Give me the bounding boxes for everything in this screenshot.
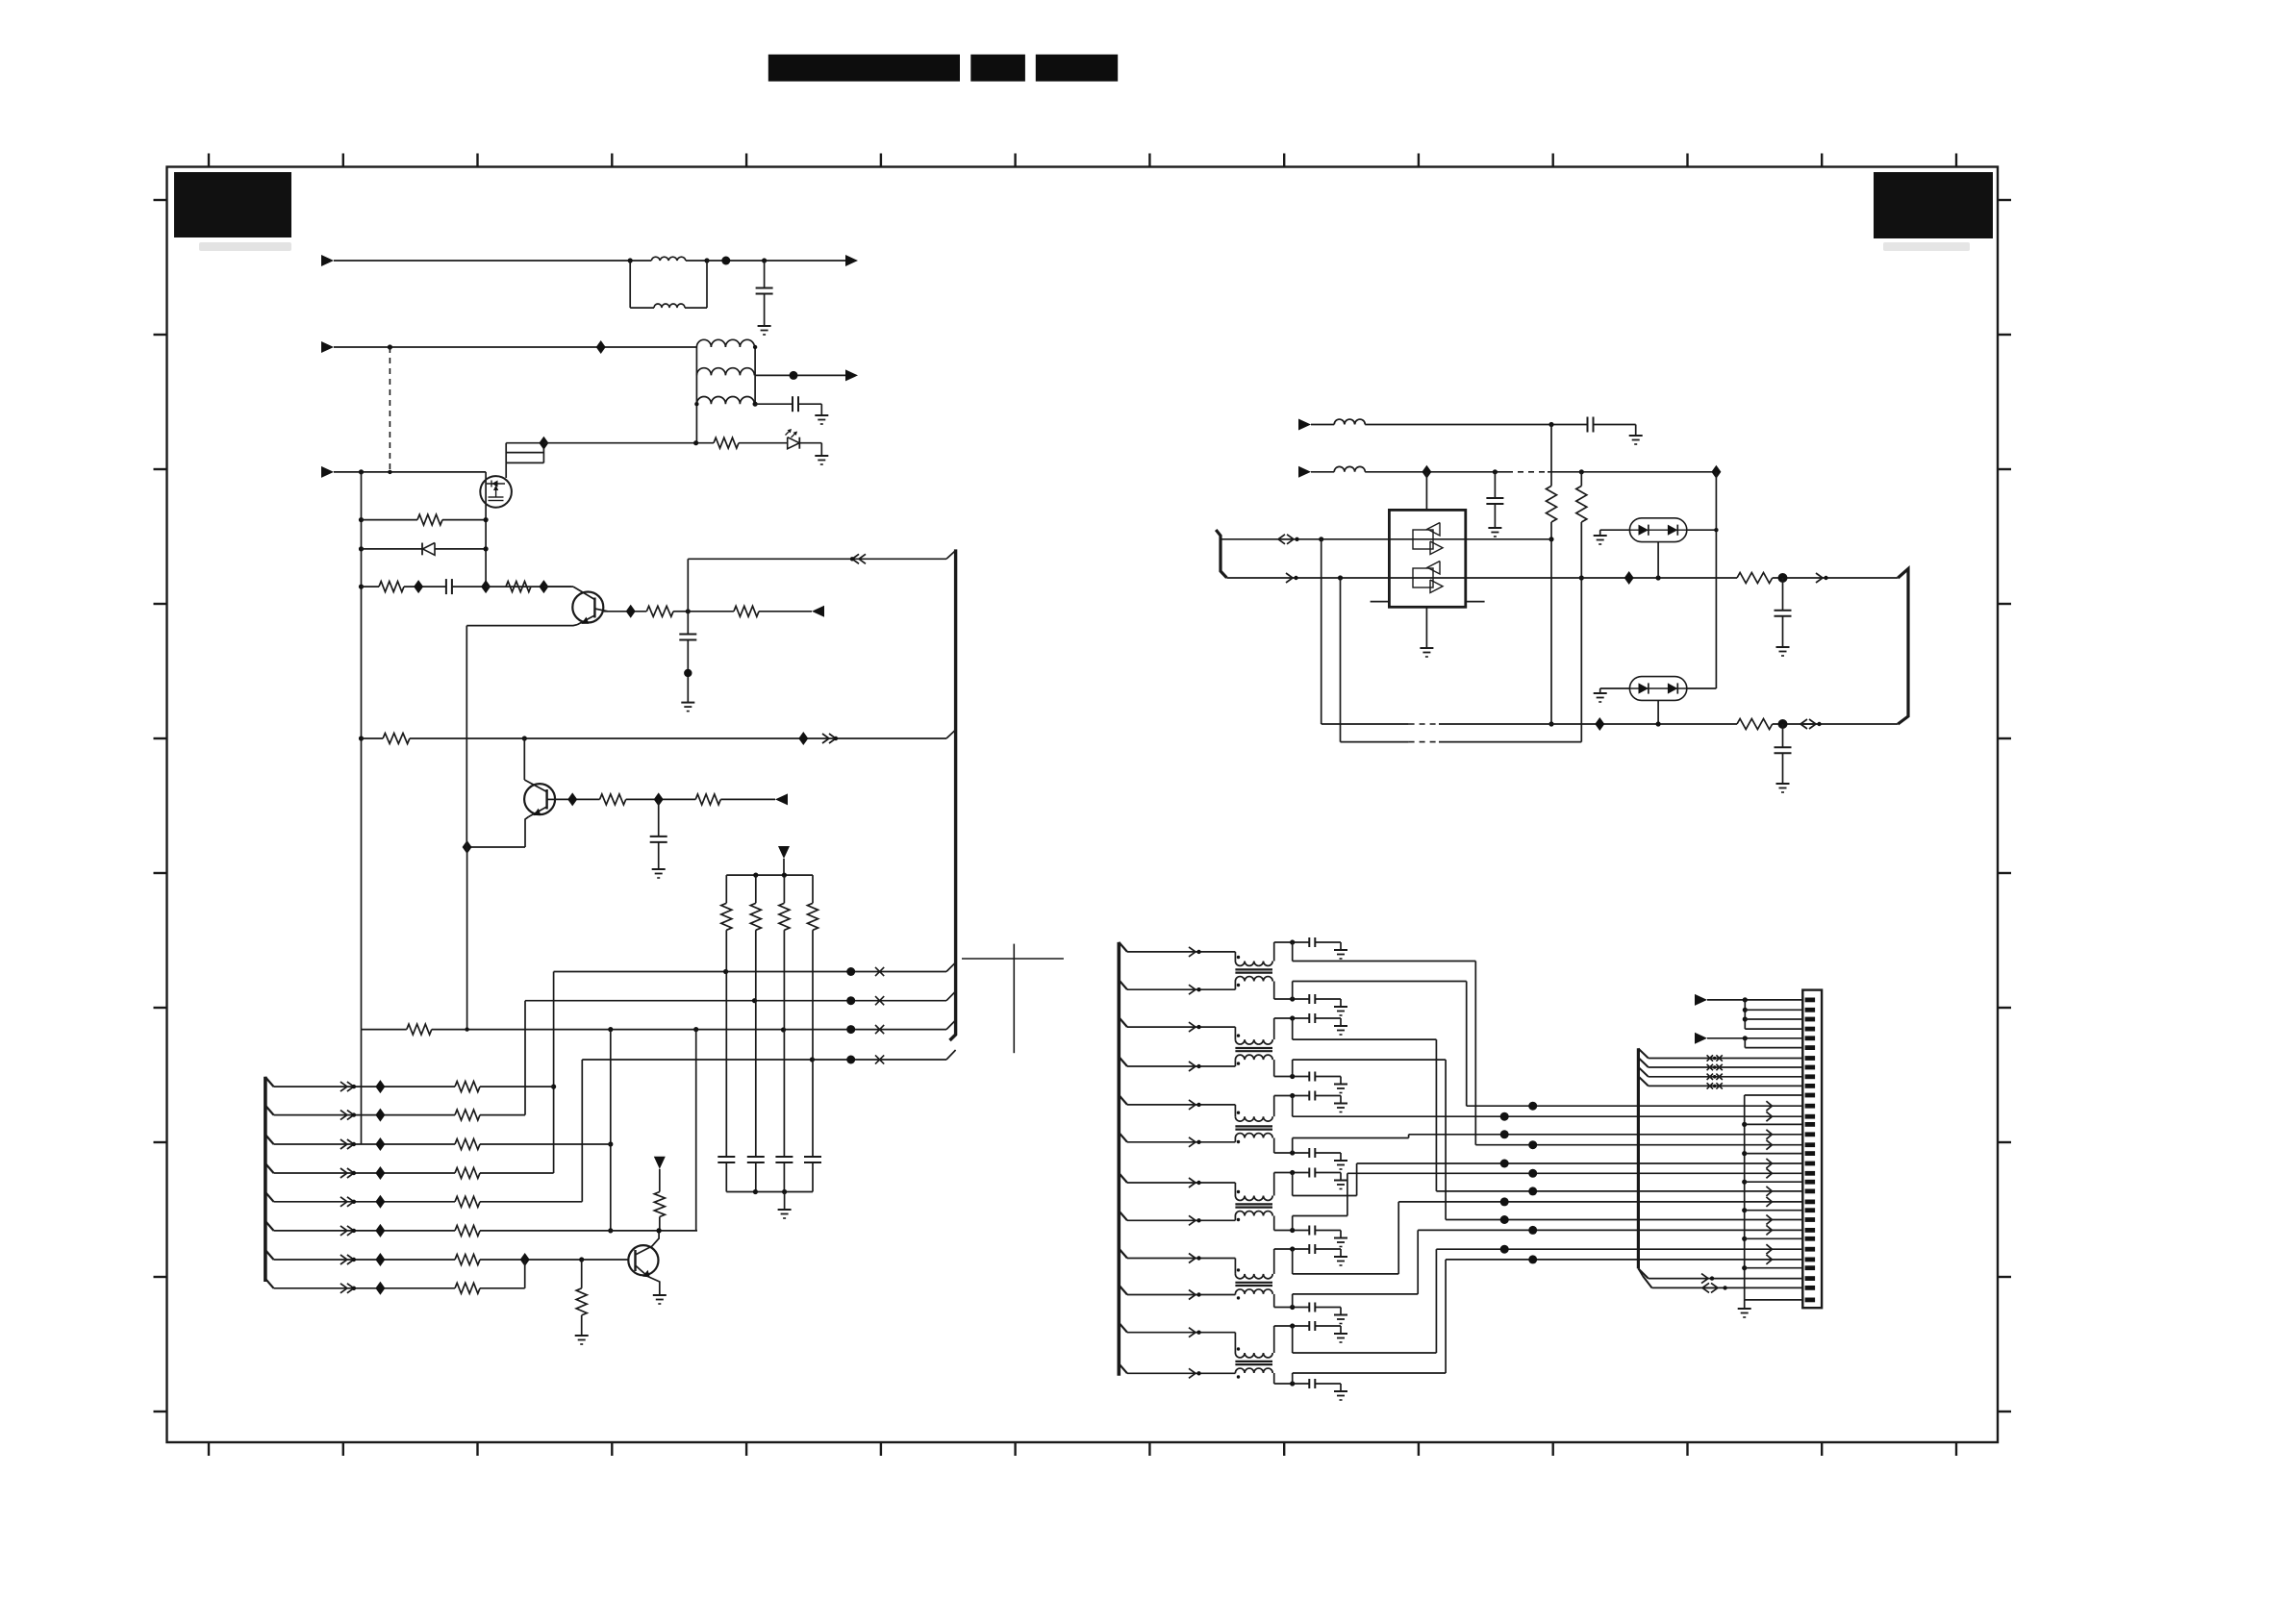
lower row5 diamond [375,1195,385,1209]
U2 right lead [1687,529,1717,531]
pullup resistor R11 [750,903,761,930]
node row1 cap tap [762,258,767,262]
dist row y1318 [1745,1267,1803,1269]
ghost text under left box [199,242,291,251]
filter cap C27 [1308,1226,1310,1236]
row 12 big dot [1528,1102,1537,1111]
ghost text under right box [1883,242,1970,251]
transformer T5 core [1235,1282,1272,1284]
route w1 vertical [1474,962,1476,1145]
cap C11 lead [755,1162,757,1192]
upper row4 wire [582,1059,946,1061]
wire row1 [334,260,630,262]
pin1 node [1743,997,1748,1002]
bus stack left vertical [505,443,507,463]
bottom row1 big dot [1778,719,1788,729]
rowA cap to gnd [1594,424,1636,426]
cell node 1 [1290,939,1295,944]
signal row 4 jog [1234,1060,1236,1066]
xx row 1 stub [1638,1049,1648,1059]
led D2 [788,437,799,449]
vertical x1784 [1715,472,1717,688]
rowII wire [1226,577,1389,579]
lower row4 wire [274,1172,456,1174]
bottom row1 out wire [1773,723,1899,725]
node row3 dashed [388,470,391,474]
transistor Q3 body [628,1245,658,1275]
dist node y1229 [1742,1180,1747,1185]
row31 bidir arrow [1702,1283,1709,1292]
xx row 2 marks [1707,1064,1713,1070]
signal row 7 wire [1127,1182,1235,1184]
Q1 base lead [594,609,608,612]
bottom row1 dashed [1409,723,1439,725]
cell node 11 [1290,1323,1295,1328]
wire C2 to corner [798,403,821,405]
pullup resistor R11 wire bottom [755,930,757,1157]
bus stack line1 rowD start [506,442,543,444]
upper row1 diag to bracket [946,962,956,972]
cell stub 7 [1292,1173,1294,1196]
lower row2 wire [274,1114,456,1116]
xx row 2 stub [1638,1058,1648,1067]
output arrow row1 [845,255,858,266]
route w7 vertical [1356,1163,1358,1196]
vertical x635 [610,1030,612,1231]
row 25 big dot [1528,1226,1537,1235]
diode D1 [421,543,423,556]
node rail row768 [359,736,364,740]
bank ground lead [784,1192,786,1211]
lower row1 chevrons [340,1082,347,1091]
cell left vertical 4 [1273,1060,1275,1076]
left io bracket [1216,530,1226,578]
bottom row2 wire [1341,741,1409,743]
inductor L2c [696,397,754,405]
wire row3 down to mosfet [485,472,487,587]
transformer T2 core [1235,1047,1272,1049]
lower row6 diamond [375,1224,385,1237]
pullup resistor R12 [779,903,790,930]
dist node y1169 [1742,1122,1747,1127]
pulldown resistor R17 [576,1288,587,1315]
vertical x1644 lower [1580,522,1582,742]
xx row 4 wire [1649,1085,1803,1087]
junction diamond rowB right [1711,465,1721,479]
pullup resistor R13 [808,903,818,930]
ground cell 9 [1334,1256,1347,1258]
row 19 big dot [1528,1169,1537,1178]
row 18 arrow [1766,1159,1772,1168]
capacitor C3 [445,579,447,594]
cell stub 12 [1292,1373,1294,1384]
title bar black box 1 [768,55,960,82]
transformer T1 core [1235,968,1272,970]
supply wire [783,859,785,875]
feedback1 vertical [1321,539,1322,724]
cell gnd lead 2 [1315,998,1341,1000]
fan wire 3 [1745,1018,1802,1020]
vertical row1-to-row4 [553,972,555,1174]
inductor L1a [651,257,686,261]
signal row 3 jog [1234,1027,1236,1039]
pullup top bus [726,874,813,876]
junction diamond Q1 out [626,605,636,618]
connector row 21 wire [1436,1190,1802,1192]
upper row4 big dot [846,1056,855,1064]
node L2c left [694,402,698,406]
row 21 arrow [1766,1187,1772,1196]
signal bracket left [1118,942,1121,1376]
inductor L2b [696,368,754,376]
optocoupler U3 [1629,677,1686,701]
node row3 x635 [608,1027,613,1032]
node rail diode row [359,546,364,551]
winding 4 polarity dot [1237,1062,1240,1064]
U2 left lead [1600,529,1630,531]
cell gnd lead 8 [1315,1230,1341,1232]
dist row y1258 [1745,1210,1803,1212]
junction diamond rowII [1624,571,1634,585]
row 22 arrow [1766,1197,1772,1207]
title bar black box 2 [970,55,1025,82]
cell stub 10 [1292,1294,1294,1308]
cell left vertical 1 [1273,942,1275,962]
cell node 7 [1290,1170,1295,1175]
route w8 vertical [1347,1173,1348,1215]
connector row 18 wire [1357,1162,1803,1164]
cell stub 5 [1292,1096,1294,1117]
ground row1 [758,325,771,327]
winding 5 polarity dot [1237,1112,1240,1114]
lower row5 chevrons [340,1197,347,1207]
rowB dashed [1507,471,1548,473]
upper row2 big dot [846,996,855,1005]
row7 node [579,1257,584,1262]
connector row 15 wire [1409,1134,1803,1136]
Q2 collector row [555,798,600,800]
signal stub 4 [1119,1057,1127,1066]
signal row 1 wire [1127,951,1235,953]
dist row y1199 [1745,1153,1803,1155]
row 15 big dot [1500,1130,1509,1138]
wire parallel branch bottom left [630,307,654,309]
connector stub row2 [265,1106,274,1115]
capacitor C9 [1775,746,1792,748]
capacitor C1 [756,287,773,289]
Q2 emitter [529,807,547,817]
signal stub 7 [1119,1173,1127,1183]
winding 12 polarity dot [1237,1375,1240,1378]
transformer winding 2 [1235,977,1272,982]
signal row 11 jog [1234,1333,1236,1353]
winding 10 polarity dot [1237,1296,1240,1299]
cell node 4 [1290,1074,1295,1079]
node collector junction [686,609,691,613]
junction diamond before Q1 [539,580,548,593]
bottom stub 2 [1638,1268,1643,1276]
node rail row resistor [359,517,364,522]
route w10 horizontal [1293,1293,1419,1295]
row 13 arrow [1766,1112,1772,1121]
cell gnd lead 5 [1315,1095,1341,1097]
filter cap C29 [1308,1303,1310,1312]
U1 gate B1 triangle [1427,562,1440,575]
lower row5 wire [274,1201,456,1203]
signal row 8 jog [1234,1216,1236,1221]
pullup resistor R12 wire bottom [783,930,785,1157]
cap C10 lead [725,1162,727,1192]
bottom row1 wire [1322,723,1409,725]
cap C12 lead [783,1162,785,1192]
ground cell 2 [1334,1006,1347,1008]
dashed wire to row3 [389,347,390,472]
node row3 at emitter vert [465,1027,468,1031]
signal row 9 wire [1127,1258,1235,1260]
node rowI feedback [1319,537,1323,541]
node row3 rail [359,469,364,474]
node rowII feedback [1338,575,1343,580]
wire emitter link row [467,846,525,848]
resistor row y540 wire [362,519,418,521]
supply arrow down Q3 [654,1157,666,1169]
cell wire 11 [1274,1325,1310,1327]
wire RC to Q1 base [486,586,571,587]
Q2 base lead [547,798,555,800]
bottom row2 dashed [1409,741,1439,743]
capacitor C6 [1587,417,1589,433]
U1 gate B2 triangle [1430,580,1443,593]
vertical row4-to-row5 [581,1060,583,1202]
fan node b [1743,1016,1748,1021]
cell wire 9 [1274,1248,1310,1250]
wire row1 mid [707,260,845,262]
transformer winding 8 [1235,1212,1272,1216]
ground cell 4 [1334,1084,1347,1086]
resistor R7 [600,794,626,805]
rowII out wire [1773,577,1899,579]
rowI bidir arrow [1278,535,1285,544]
winding 1 polarity dot [1237,956,1240,959]
ground Q3 [653,1294,667,1296]
signal row 10 wire [1127,1294,1235,1296]
signal row 1 arrow [1189,947,1196,957]
ground dist [1738,1308,1751,1310]
resistor R9 [407,1024,432,1035]
signal row 12 arrow [1189,1368,1196,1378]
cell gnd lead 11 [1315,1325,1341,1327]
filter cap C210 [1308,1321,1310,1331]
wire emitter link down [466,847,468,1030]
row 24 arrow [1766,1215,1772,1225]
connector stub row6 [265,1221,274,1231]
Q1 collector row wire [604,611,647,612]
route w11 horizontal [1293,1352,1437,1354]
lower row4 resistor [455,1168,480,1179]
bottom row1 resistor R23 [1737,719,1773,730]
lower row5 resistor [455,1196,480,1207]
left rail wire [361,472,363,1030]
Q3 supply wire [659,1169,661,1192]
xx row 1 marks [1707,1055,1713,1061]
cell node 2 [1290,996,1295,1001]
cell left vertical 3 [1273,1018,1275,1039]
signal row 6 arrow [1189,1137,1196,1147]
cell left vertical 8 [1273,1216,1275,1231]
resistor R20 [1547,486,1557,522]
xx row 3 stub [1638,1067,1648,1077]
ground rowC [815,414,828,416]
junction diamond RC [414,580,423,593]
pin arrow 2 [1695,1033,1707,1044]
ground U3 [1594,692,1607,694]
U3 bottom lead [1657,700,1659,724]
lower row4 chevrons [340,1168,347,1178]
inductor L3 [1334,419,1365,424]
route w9 vertical [1397,1202,1399,1274]
capacitor C7 [1486,497,1503,499]
route w1 horizontal [1293,961,1476,962]
input arrow row1 [321,255,334,266]
cell node 10 [1290,1305,1295,1310]
corner black box left [174,172,291,237]
dist row y1229 [1745,1181,1803,1183]
route w8 horizontal [1293,1215,1347,1217]
capacitor C5 [650,836,667,837]
connector row 22 wire [1398,1201,1802,1203]
row 12 arrow [1766,1101,1772,1111]
ground cell 10 [1334,1314,1347,1316]
ground C4 [681,702,694,704]
ground cell 7 [1334,1180,1347,1182]
signal row 7 arrow [1189,1178,1196,1187]
cap bank bottom bus [726,1191,813,1193]
pulldown wire2 [581,1315,583,1336]
junction diamond Q2 mid [654,792,664,806]
U3 left lead [1600,687,1630,689]
Q1 emitter wire [466,624,577,627]
feedback2 vertical [1340,578,1342,742]
ground cell 3 [1334,1025,1347,1027]
bottom row1 diamond [1595,717,1604,731]
bus stack line2 [506,452,543,454]
winding 11 polarity dot [1237,1347,1240,1350]
cell left vertical 9 [1273,1249,1275,1274]
wire C1 to ground [764,294,766,327]
row 28 big dot [1528,1255,1537,1263]
Q2 base bar [545,789,547,810]
resistor R5 [734,606,759,616]
signal stub 2 [1119,980,1127,989]
fan wire 6 [1745,1047,1802,1049]
junction diamond Q2 out [567,792,577,806]
feedback chevrons left [859,554,866,563]
pin1 wire [1707,999,1802,1001]
cell node 5 [1290,1093,1295,1098]
dist node y1288 [1742,1237,1747,1241]
signal stub 3 [1119,1017,1127,1027]
transformer winding 11 [1235,1353,1272,1358]
Q3 collector resistor R18 [654,1192,665,1217]
C7 to ground [1494,504,1496,528]
junction diamond emitter link [463,840,472,854]
pullup resistor R13 wire bottom [812,930,814,1157]
winding 7 polarity dot [1237,1190,1240,1193]
cell left vertical 6 [1273,1138,1275,1154]
route w7 horizontal [1293,1195,1357,1197]
node diode right [484,546,489,551]
cell gnd lead 12 [1315,1383,1341,1385]
ground rowA [1629,435,1643,437]
inductor L2a [696,339,754,347]
transistor Q1 body [572,592,603,623]
connector J1 pins [1805,998,1816,1003]
decoupling cap C11 [747,1156,765,1158]
dist gnd lead [1744,1300,1746,1308]
pulldown wire [581,1260,583,1288]
ground C7 [1488,527,1501,529]
node rowC junction [753,402,758,407]
output arrow row2 [845,369,858,381]
left rail lower [361,1030,363,1144]
rowII big dot [1778,573,1788,583]
mosfet Q4 internals [487,483,505,485]
wire C5 down [658,842,660,869]
C9 to ground [1782,753,1784,784]
lower row6 resistor [455,1225,480,1236]
cell wire 3 [1274,1017,1310,1019]
upper row3 wire [362,1029,407,1031]
Q3 collector [636,1231,660,1255]
filter cap C28 [1308,1244,1310,1254]
row 24 big dot [1500,1215,1509,1224]
ground rowD [815,455,828,457]
lower row1 wire [274,1086,456,1087]
signal row 2 jog [1234,982,1236,990]
signal row 2 arrow [1189,985,1196,994]
dist node y1199 [1742,1151,1747,1156]
xx row 4 marks [1707,1083,1713,1088]
route w3 vertical [1435,1039,1437,1191]
route w6 vertical [1408,1135,1410,1138]
diode row wire [362,548,423,550]
route w12 horizontal [1293,1372,1446,1374]
node row1 right of inductors [704,258,709,262]
signal row 10 jog [1234,1293,1236,1296]
row8 vertical to row7 [524,1260,526,1288]
junction diamond row2 [596,340,606,354]
rowD wire [543,442,714,444]
cross horizontal [962,958,1064,960]
cell wire 5 [1274,1095,1310,1097]
pullup resistor R13 wire top [812,875,814,903]
resistor R8 [695,794,720,805]
filter cap C22 [1308,1013,1310,1023]
transformer winding 5 [1235,1116,1272,1121]
signal row 8 wire [1127,1219,1235,1221]
Q3 emitter [636,1265,648,1277]
winding 9 polarity dot [1237,1268,1240,1271]
ground U2 [1594,535,1607,537]
upper row2 node [752,998,757,1003]
cell left vertical 10 [1273,1294,1275,1308]
pullup resistor R10 wire top [725,875,727,903]
fan wire 4 [1745,1028,1802,1030]
winding 6 polarity dot [1237,1140,1240,1143]
U1 gate pairB rect [1413,568,1433,587]
transformer T4 core [1235,1203,1272,1205]
mid bracket [1637,1048,1640,1268]
